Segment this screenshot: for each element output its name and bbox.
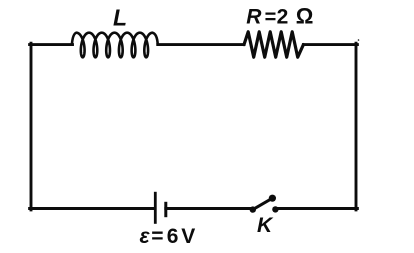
svg-text:Ω: Ω xyxy=(296,4,314,29)
switch lever tip dot xyxy=(269,195,276,202)
switch left contact dot xyxy=(250,206,256,212)
wire bottom-right segment xyxy=(279,207,358,210)
wire top-middle segment xyxy=(158,43,244,46)
wire bottom-left segment xyxy=(30,207,155,210)
battery long plate xyxy=(154,192,157,224)
wire left vertical xyxy=(30,43,33,210)
svg-text:=: = xyxy=(151,225,163,248)
svg-text:R: R xyxy=(246,6,262,29)
switch K lever xyxy=(253,198,273,209)
resistor R zigzag xyxy=(244,32,303,57)
wire right vertical xyxy=(355,43,358,210)
svg-text:ε: ε xyxy=(140,225,151,248)
switch right contact dot xyxy=(272,206,278,212)
wire top-right segment xyxy=(303,43,357,46)
svg-text:2: 2 xyxy=(277,6,289,29)
wire bottom: battery to switch xyxy=(166,207,253,210)
svg-text:K: K xyxy=(257,214,274,237)
wire top-left segment xyxy=(30,43,73,46)
inductor L coil xyxy=(72,33,158,58)
stray speck top right xyxy=(358,39,360,41)
svg-text:=: = xyxy=(265,7,277,29)
battery short plate xyxy=(164,202,167,217)
svg-text:V: V xyxy=(181,225,195,248)
svg-text:6: 6 xyxy=(167,225,179,248)
svg-text:L: L xyxy=(113,5,127,31)
